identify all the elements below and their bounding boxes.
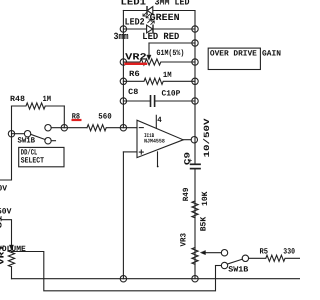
svg-text:1M: 1M	[43, 95, 52, 104]
svg-text:G1M(5%): G1M(5%)	[157, 49, 185, 58]
svg-text:10/50V: 10/50V	[203, 118, 212, 157]
svg-text:3MM LED: 3MM LED	[155, 0, 190, 8]
svg-text:OVER DRIVE: OVER DRIVE	[210, 49, 257, 58]
svg-text:VR2: VR2	[125, 52, 147, 63]
svg-text:0V: 0V	[0, 185, 7, 194]
svg-text:C9: C9	[184, 152, 193, 165]
svg-text:R6: R6	[129, 70, 140, 79]
svg-text:330: 330	[283, 247, 295, 256]
svg-text:10K: 10K	[201, 191, 210, 206]
svg-text:C1: C1	[0, 215, 5, 228]
svg-text:1M: 1M	[163, 71, 172, 80]
svg-text:LED RED: LED RED	[142, 31, 179, 42]
svg-text:B5K: B5K	[200, 217, 209, 232]
svg-text:R8: R8	[72, 112, 80, 121]
svg-text:560: 560	[98, 112, 112, 121]
svg-text:VR3: VR3	[180, 233, 189, 247]
svg-text:SELECT: SELECT	[21, 157, 44, 166]
svg-text:4: 4	[157, 116, 162, 125]
svg-text:SW1B: SW1B	[228, 266, 248, 275]
svg-text:R49: R49	[182, 187, 191, 201]
svg-text:GAIN: GAIN	[262, 49, 281, 58]
svg-text:R5: R5	[260, 247, 269, 256]
svg-text:VR1: VR1	[0, 245, 7, 265]
svg-text:SW1B: SW1B	[18, 137, 36, 146]
svg-text:C8: C8	[128, 88, 138, 97]
svg-text:NJM4558: NJM4558	[144, 138, 165, 145]
svg-text:GREEN: GREEN	[150, 12, 180, 23]
svg-text:LED1: LED1	[121, 0, 147, 8]
svg-text:C10P: C10P	[162, 89, 181, 98]
svg-text:R48: R48	[10, 95, 25, 104]
svg-text:3mm: 3mm	[114, 31, 129, 42]
svg-text:LED2: LED2	[125, 16, 145, 27]
svg-text:50V: 50V	[0, 208, 12, 217]
